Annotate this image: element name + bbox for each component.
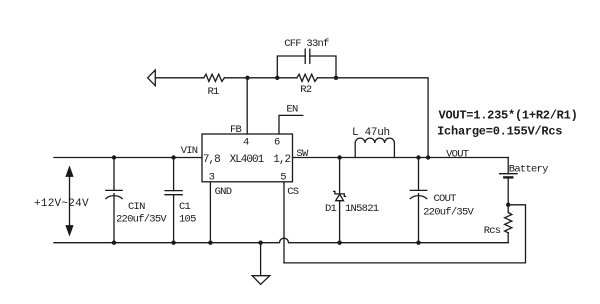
svg-text:Battery: Battery	[509, 164, 548, 176]
input voltage range arrow	[69, 172, 71, 230]
wire R1 to R2	[224, 77, 297, 79]
capacitor COUT wires	[418, 158, 420, 243]
svg-text:VIN: VIN	[181, 145, 198, 157]
svg-text:Icharge=0.155V/Rcs: Icharge=0.155V/Rcs	[437, 125, 562, 139]
svg-text:XL4001: XL4001	[230, 154, 265, 166]
svg-text:R1: R1	[208, 86, 220, 98]
svg-text:L 47uh: L 47uh	[352, 127, 390, 139]
wire SW output	[293, 157, 509, 159]
svg-text:EN: EN	[286, 103, 298, 115]
junction dots	[112, 155, 116, 159]
wire CS pin 5 down	[283, 182, 285, 263]
capacitor C1 plates	[165, 191, 182, 195]
resistor R1	[204, 74, 225, 81]
resistor Rcs	[505, 213, 512, 233]
svg-text:VOUT=1.235*(1+R2/R1): VOUT=1.235*(1+R2/R1)	[439, 109, 578, 123]
diode D1 1N5821	[339, 158, 341, 243]
svg-text:7,8: 7,8	[203, 154, 220, 166]
wire battery to sense node	[507, 177, 509, 212]
battery BT1	[500, 173, 517, 175]
svg-text:1,2: 1,2	[273, 154, 290, 166]
svg-text:220uf/35V: 220uf/35V	[423, 207, 474, 219]
svg-text:4: 4	[243, 136, 249, 148]
svg-text:3: 3	[209, 172, 215, 184]
capacitor CFF left riser wire	[277, 56, 305, 78]
svg-text:VOUT: VOUT	[446, 149, 469, 161]
svg-text:220uf/35V: 220uf/35V	[116, 214, 167, 226]
op-amp U1 XL4001 body	[202, 134, 293, 182]
svg-text:Rcs: Rcs	[484, 225, 501, 237]
svg-text:6: 6	[274, 136, 280, 148]
ground	[260, 243, 262, 276]
wire FB down to pin 4	[246, 78, 248, 134]
svg-text:CIN: CIN	[128, 201, 145, 213]
capacitor COUT plates	[410, 190, 426, 198]
node FB arrow connector	[148, 70, 156, 86]
wire arrow to R1	[155, 77, 204, 79]
svg-text:CFF 33nf: CFF 33nf	[284, 38, 329, 50]
resistor R2	[297, 74, 318, 81]
svg-text:FB: FB	[230, 124, 242, 136]
capacitor CFF right riser wire	[310, 56, 336, 78]
wire current sense return	[284, 205, 526, 263]
svg-text:D1: D1	[325, 203, 337, 215]
svg-text:R2: R2	[300, 84, 312, 96]
wire VOUT to battery	[507, 158, 509, 174]
svg-text:105: 105	[179, 214, 196, 226]
svg-text:SW: SW	[296, 148, 309, 160]
wire EN pull-up	[279, 115, 303, 134]
svg-text:C1: C1	[179, 201, 191, 213]
wire GND pin 3	[209, 182, 211, 243]
wire R2 to feedback corner	[318, 78, 429, 158]
capacitor CIN wires	[113, 158, 115, 243]
svg-text:CS: CS	[287, 186, 299, 198]
capacitor C1 wires	[173, 158, 175, 243]
wire ground rail with hop	[54, 238, 508, 242]
svg-text:COUT: COUT	[434, 193, 457, 205]
wire Rcs to ground rail	[507, 233, 509, 243]
capacitor CIN plates	[106, 190, 122, 198]
capacitor CFF plates	[305, 49, 310, 63]
svg-text:+12V~24V: +12V~24V	[34, 198, 89, 210]
wire input rail top	[54, 157, 202, 159]
svg-text:GND: GND	[215, 186, 232, 198]
inductor L1	[355, 138, 394, 157]
svg-text:1N5821: 1N5821	[345, 203, 379, 215]
svg-text:5: 5	[280, 172, 286, 184]
